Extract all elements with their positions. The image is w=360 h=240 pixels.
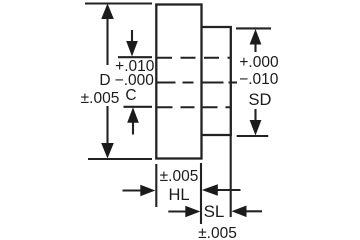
dimension SD top extension line <box>236 27 271 29</box>
step outline <box>202 27 231 135</box>
dimension SD line lower segment <box>254 109 256 122</box>
dimension SD bottom extension line <box>237 135 269 137</box>
dimension HL left arrow line <box>123 189 142 191</box>
arrowhead D down <box>101 143 114 159</box>
arrowhead HL right (points left) <box>202 184 218 196</box>
shared extension line HL/SL <box>200 163 202 224</box>
dimension SD line upper segment <box>254 43 256 52</box>
arrowhead HL left (points right) <box>140 185 155 197</box>
svg-text:D: D <box>99 72 110 89</box>
svg-text:±.005: ±.005 <box>81 90 120 107</box>
dimension D line lower segment <box>106 106 108 146</box>
dimension SL left arrow line <box>168 210 186 212</box>
arrowhead D up <box>101 4 114 20</box>
svg-text:SD: SD <box>249 91 272 109</box>
dimension C up arrow line <box>132 121 134 135</box>
svg-text:±.005: ±.005 <box>160 168 199 185</box>
dimension C top extension line <box>118 56 152 58</box>
arrowhead SD up <box>250 29 262 45</box>
dimension SL right arrow line <box>246 210 262 212</box>
dimension HL right arrow line <box>217 189 241 191</box>
dimension D line upper segment <box>106 17 108 65</box>
svg-text:HL: HL <box>168 186 189 204</box>
arrowhead SD down <box>250 120 262 136</box>
arrowhead SL left (points right) <box>185 206 200 218</box>
hidden line top of bore <box>157 57 230 59</box>
dimension D bottom extension line <box>88 158 152 160</box>
svg-text:C: C <box>125 87 136 104</box>
centerline <box>157 82 238 84</box>
hub outline <box>156 5 201 159</box>
svg-text:SL: SL <box>204 202 225 221</box>
hidden line bottom of bore <box>157 106 231 108</box>
arrowhead SL right (points left) <box>232 206 247 218</box>
dimension C down arrow line <box>131 30 133 43</box>
dimension HL left extension line <box>155 164 157 207</box>
svg-text:−.010: −.010 <box>239 71 279 88</box>
dimension C bottom extension line <box>124 106 153 108</box>
dimension D top extension line <box>85 2 152 4</box>
dimension SL right extension line <box>230 136 232 217</box>
arrowhead C up <box>127 107 139 123</box>
svg-text:+.000: +.000 <box>239 54 279 71</box>
svg-text:±.005: ±.005 <box>198 225 237 240</box>
arrowhead C down <box>126 41 138 57</box>
